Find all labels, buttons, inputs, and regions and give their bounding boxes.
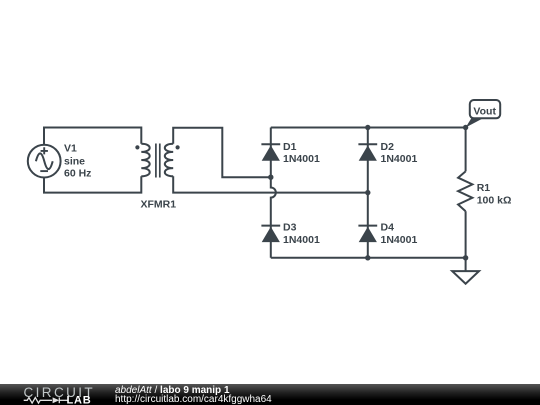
diode D3: [261, 225, 280, 243]
footer title: [115, 386, 230, 396]
svg-text:LAB: LAB: [67, 394, 92, 405]
wire secondary top: [173, 128, 271, 178]
wire primary bottom: [44, 176, 141, 192]
svg-text:D3: D3: [283, 222, 297, 234]
svg-text:D1: D1: [283, 141, 297, 153]
svg-text:V1: V1: [64, 143, 77, 155]
svg-text:D2: D2: [381, 141, 395, 153]
transformer XFMR1: [135, 144, 179, 178]
svg-text:D4: D4: [381, 222, 395, 234]
node bottom rail / right branch: [365, 255, 370, 260]
wire primary top: [44, 128, 141, 145]
svg-text:60 Hz: 60 Hz: [64, 168, 91, 180]
wire bridge left branch with hop: [271, 128, 276, 258]
svg-text:1N4001: 1N4001: [381, 234, 418, 246]
voltage source V1: [28, 145, 61, 178]
diode D2: [358, 143, 377, 161]
diode D4: [358, 225, 377, 243]
svg-text:1N4001: 1N4001: [283, 153, 320, 165]
svg-text:1N4001: 1N4001: [283, 234, 320, 246]
svg-text:R1: R1: [477, 182, 491, 194]
diode D1: [261, 143, 280, 161]
wire bridge right branch: [367, 128, 369, 258]
node ground junction: [463, 255, 468, 260]
svg-text:Vout: Vout: [473, 105, 496, 117]
resistor R1: [458, 171, 472, 211]
svg-text:100 kΩ: 100 kΩ: [477, 195, 512, 207]
node Vout: [463, 125, 468, 130]
wire secondary bottom: [173, 176, 368, 192]
svg-text:sine: sine: [64, 156, 85, 168]
wire R1 to bottom rail: [465, 211, 467, 258]
net flag Vout: [466, 100, 501, 128]
node top rail / right branch: [365, 125, 370, 130]
CircuitLab logo: [0, 384, 110, 405]
footer url: [115, 395, 272, 405]
wire bottom rail: [271, 257, 466, 259]
ground: [452, 258, 479, 284]
svg-text:XFMR1: XFMR1: [141, 199, 177, 211]
svg-text:1N4001: 1N4001: [381, 153, 418, 165]
node secondary-bridge left junction: [268, 175, 273, 180]
node mid right branch: [365, 190, 370, 195]
wire top rail: [271, 127, 466, 129]
wire Vout node to R1: [465, 128, 467, 172]
